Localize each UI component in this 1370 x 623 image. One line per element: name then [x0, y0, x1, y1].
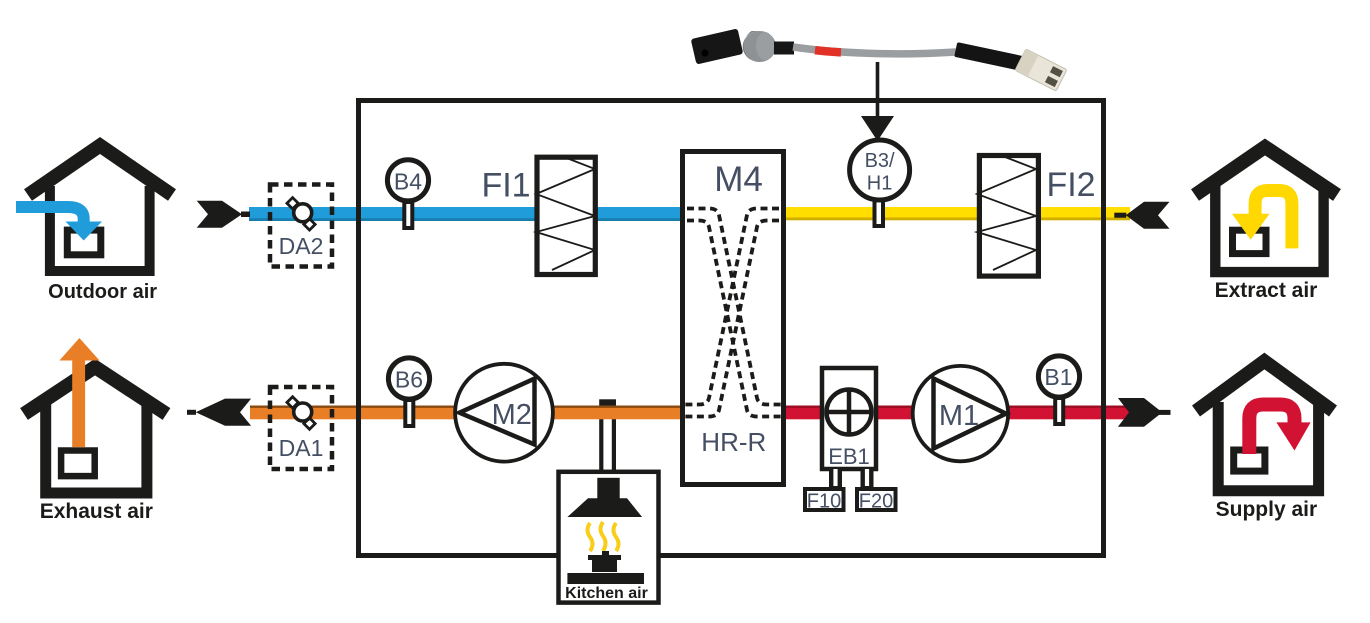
svg-text:M4: M4: [714, 160, 763, 199]
orange outflow arrow: [72, 360, 85, 447]
red band: [815, 50, 841, 52]
sensor B3/H1: [850, 140, 910, 226]
svg-text:B4: B4: [394, 169, 422, 195]
heater EB1: [822, 368, 876, 469]
stove bar: [567, 573, 644, 584]
fan M2: [455, 364, 553, 462]
svg-text:M2: M2: [492, 399, 532, 431]
hood chimney: [597, 478, 619, 499]
black neck: [774, 42, 794, 55]
svg-text:B3/: B3/: [865, 150, 895, 172]
node: extract arrow (right, pointing left): [1114, 202, 1169, 229]
gray cable: [793, 47, 956, 54]
node: intake arrow (outdoor air): [197, 201, 250, 228]
damper DA2: [270, 185, 332, 267]
fan M1: [913, 366, 1008, 461]
kitchen air box: [559, 472, 659, 603]
house: Exhaust air: [24, 338, 167, 523]
black sleeve: [954, 42, 1024, 71]
svg-text:DA1: DA1: [279, 435, 324, 461]
svg-text:FI1: FI1: [481, 167, 530, 205]
heat exchanger M4: [683, 152, 784, 485]
svg-text:HR-R: HR-R: [701, 427, 766, 457]
black connector head: [691, 28, 744, 64]
svg-text:EB1: EB1: [828, 444, 870, 469]
svg-text:H1: H1: [867, 173, 893, 195]
white connector: [1015, 49, 1067, 91]
svg-text:DA2: DA2: [279, 233, 324, 259]
blue inflow arrow: [16, 207, 84, 222]
gray collar: [743, 31, 776, 62]
house: Outdoor air: [16, 146, 172, 304]
svg-text:M1: M1: [939, 400, 979, 432]
wire: dashed channel top-right to bottom-left: [684, 209, 779, 405]
svg-text:Kitchen air: Kitchen air: [565, 585, 648, 602]
fuse F10: [805, 489, 844, 513]
sensor B6: [388, 358, 429, 426]
svg-text:B6: B6: [395, 367, 423, 393]
arrow to B3/H1: [861, 62, 894, 141]
sensor cable photo: [691, 28, 1067, 91]
svg-text:F20: F20: [859, 491, 893, 513]
node: supply arrow (right, pointing right): [1118, 398, 1171, 427]
steam: [588, 523, 593, 551]
fuse stems F10/F20: [829, 469, 842, 488]
yellow return arrow: [1255, 191, 1292, 249]
wire: supply air duct (red): [783, 406, 1132, 420]
damper DA1: [270, 387, 332, 469]
svg-text:Exhaust air: Exhaust air: [40, 500, 153, 523]
pot: [602, 551, 609, 556]
sensor B4: [387, 160, 428, 228]
red supply arrow: [1249, 405, 1294, 455]
hood: [567, 498, 642, 517]
wire: dashed channel top-left to bottom-right: [687, 209, 782, 405]
node: exhaust arrow (left, pointing left): [187, 399, 251, 426]
house: Extract air: [1195, 147, 1337, 302]
kitchen air vertical duct: [599, 399, 616, 471]
filter FI1: [481, 157, 595, 275]
wire: outdoor air duct (blue): [249, 207, 683, 221]
sensor B1: [1038, 356, 1079, 424]
svg-text:Supply air: Supply air: [1216, 498, 1318, 521]
node: main unit enclosure: [359, 101, 1104, 556]
svg-text:B1: B1: [1044, 364, 1072, 390]
svg-text:FI2: FI2: [1046, 166, 1095, 204]
house: Supply air: [1196, 361, 1333, 521]
svg-text:Extract air: Extract air: [1215, 279, 1318, 302]
wire: extract air duct (yellow): [783, 207, 1130, 220]
filter FI2: [977, 156, 1096, 277]
wire: exhaust air duct (orange): [250, 406, 683, 420]
svg-text:F10: F10: [807, 491, 841, 513]
svg-text:Outdoor air: Outdoor air: [48, 281, 157, 303]
fuse F20: [857, 489, 896, 513]
